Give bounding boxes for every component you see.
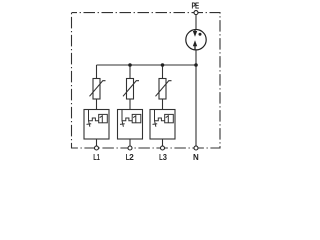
svg-text:3: 3 [163, 153, 168, 162]
svg-text:E: E [195, 0, 199, 10]
svg-text:2: 2 [129, 152, 134, 162]
svg-text:N: N [193, 153, 199, 162]
svg-text:1: 1 [97, 153, 100, 162]
